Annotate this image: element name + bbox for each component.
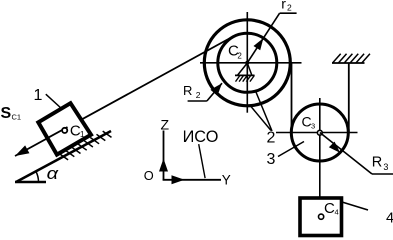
ceiling line: [332, 62, 365, 64]
r2 leader horizontal: [280, 12, 297, 14]
svg-text:4: 4: [335, 207, 339, 216]
R3 arrowhead: [329, 142, 340, 153]
C3 center circle: [317, 130, 322, 135]
Y axis line: [163, 179, 221, 181]
svg-text:O: O: [144, 168, 154, 183]
radius arrow r2 line: [247, 13, 279, 63]
svg-text:1: 1: [34, 87, 43, 104]
svg-text:Z: Z: [161, 117, 170, 133]
svg-text:S: S: [1, 105, 12, 122]
C4 center circle: [319, 214, 324, 219]
rope from block 1 to pulley 2 / vector S_C1 line: [15, 37, 233, 157]
leader 2 to inner circle: [256, 91, 272, 131]
pulley 3 circle: [291, 104, 348, 161]
pulley 2 crosshair vertical: [246, 12, 248, 113]
pulley 2 outer circle: [204, 20, 290, 106]
R3 underline: [372, 173, 393, 175]
leader 2 to outer circle: [250, 106, 271, 131]
R2 arrowhead: [210, 83, 222, 96]
svg-text:4: 4: [386, 210, 393, 226]
svg-text:3: 3: [267, 151, 276, 168]
radius arrow R2: [207, 83, 222, 101]
leader 4: [342, 202, 368, 210]
C1 center circle: [62, 128, 67, 133]
svg-text:r: r: [281, 0, 286, 12]
pin support base line: [235, 74, 255, 76]
svg-text:1: 1: [80, 130, 85, 139]
incline hatching: [59, 131, 111, 160]
rope ceiling to pulley 3: [348, 63, 350, 133]
svg-text:2: 2: [267, 129, 276, 146]
ISO leader to Y axis: [199, 144, 205, 178]
pin support triangle under C2: [238, 63, 252, 75]
r2 arrowhead: [254, 38, 264, 50]
load 4 rectangle: [300, 198, 342, 236]
svg-text:ИСО: ИСО: [183, 128, 219, 146]
Z axis arrowhead: [159, 159, 168, 172]
svg-text:2: 2: [237, 52, 242, 61]
pulley 2 crosshair horizontal: [200, 62, 302, 64]
label C3 (white backing): [300, 115, 316, 129]
R2 underline: [188, 100, 207, 102]
label C2 (white backing): [228, 44, 244, 60]
svg-text:α: α: [47, 164, 59, 183]
pulley 2 inner circle: [218, 33, 277, 92]
svg-text:C1: C1: [12, 113, 22, 122]
pulley 3 crosshair horizontal: [276, 132, 358, 134]
pin support hatching: [236, 75, 255, 81]
rope segment inside block to C1: [47, 127, 68, 138]
C2 center dot: [245, 61, 249, 65]
angle arc: [36, 171, 39, 182]
incline surface: [16, 131, 111, 182]
svg-text:C: C: [324, 200, 335, 217]
svg-text:3: 3: [311, 122, 315, 131]
leader 3 to pulley 3: [278, 142, 304, 157]
radius arrow R3: [320, 133, 372, 175]
leader for label 1: [46, 94, 62, 109]
Z axis line: [163, 131, 165, 180]
vector S_C1 arrowhead: [15, 145, 29, 156]
svg-text:Y: Y: [222, 173, 231, 188]
svg-text:R: R: [372, 154, 382, 170]
svg-text:2: 2: [287, 3, 292, 13]
pulley 3 crosshair vertical / rope to load 4: [319, 98, 321, 198]
ceiling hatching: [333, 54, 370, 63]
svg-text:2: 2: [196, 90, 201, 100]
svg-text:R: R: [183, 83, 192, 98]
rope pulley 2 to pulley 3: [291, 63, 293, 133]
svg-text:3: 3: [383, 162, 388, 172]
block 1 (square on incline): [38, 103, 91, 154]
Y axis arrowhead: [172, 175, 185, 184]
angle baseline: [15, 181, 46, 183]
